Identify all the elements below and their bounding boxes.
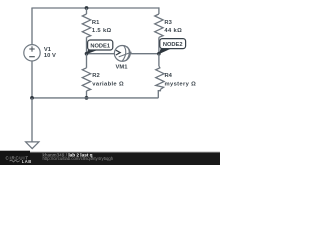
svg-text:NODE1: NODE1 [90,44,110,50]
svg-text:1.5 kΩ: 1.5 kΩ [92,28,112,34]
wire: V1 top lead up left column [31,8,33,45]
resistor R4 [156,66,196,89]
svg-text:44 kΩ: 44 kΩ [164,28,182,34]
svg-text:R4: R4 [165,73,173,79]
junction dot: R2 at bottom rail [85,96,89,100]
wire: bottom rail [32,97,158,99]
wire: R4 bottom jog to bottom rail [158,89,160,98]
node NODE1 [86,40,113,54]
junction dot: R1 tap on top rail [85,6,89,10]
svg-text:10 V: 10 V [44,53,56,59]
svg-text:LAB: LAB [22,159,32,164]
ground [26,98,39,149]
voltage source V1 [24,45,56,61]
resistor R1 [82,14,111,37]
wire: R3 bottom lead to NODE2 junction [158,37,160,53]
wire: top rail [31,7,159,9]
junction dot: NODE1 [85,52,89,56]
svg-text:VM1: VM1 [116,64,129,70]
svg-text:V1: V1 [44,47,52,53]
resistor R3 [155,14,182,37]
svg-text:R3: R3 [164,20,172,26]
wire: VM1 right terminal to NODE2 junction [130,53,159,55]
CircuitLab logo [6,155,32,164]
svg-text:http://circuitlab.com/c8sq4kty: http://circuitlab.com/c8sq4kty4ry5qgh [43,156,114,161]
wire: NODE1 junction to VM1 left terminal [87,53,115,55]
wire: NODE1 junction down to R2 [86,54,88,68]
svg-text:R2: R2 [92,73,99,79]
junction dot: NODE2 [157,52,161,56]
node NODE2 [159,39,186,55]
wire: R2 bottom lead [86,91,88,98]
wire: R1 top lead [86,8,88,14]
resistor R2 [82,68,124,91]
voltmeter VM1 [114,45,131,70]
svg-text:NODE2: NODE2 [163,42,183,48]
svg-text:R1: R1 [92,20,100,26]
junction dot: ground tap [30,96,34,100]
wire: NODE2 junction down to R4 [158,54,160,66]
wire: V1 bottom lead down to bottom rail [31,61,33,98]
svg-text:mystery Ω: mystery Ω [165,81,197,87]
wire: R1 bottom lead to NODE1 junction [86,37,88,53]
footer logo tab [0,151,30,165]
svg-text:variable Ω: variable Ω [92,81,124,87]
wire: R3 top lead [158,7,160,14]
